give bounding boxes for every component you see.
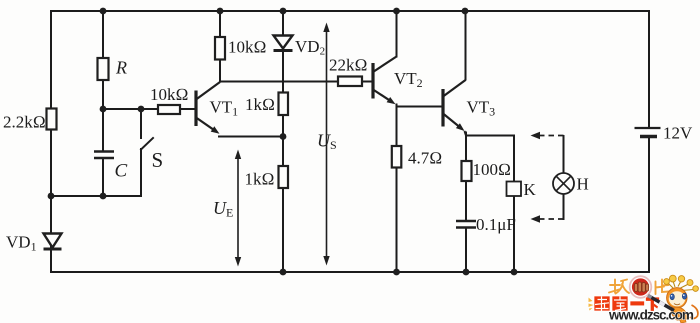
- svg-text:4.7Ω: 4.7Ω: [408, 149, 442, 168]
- svg-text:12V: 12V: [663, 124, 693, 143]
- svg-text:1kΩ: 1kΩ: [245, 170, 275, 189]
- svg-text:10kΩ: 10kΩ: [228, 38, 267, 57]
- svg-text:R: R: [115, 58, 127, 78]
- svg-text:C: C: [115, 161, 128, 182]
- svg-text:22kΩ: 22kΩ: [329, 56, 368, 75]
- svg-text:K: K: [524, 180, 537, 199]
- svg-text:0.1μF: 0.1μF: [476, 215, 516, 234]
- svg-text:2.2kΩ: 2.2kΩ: [3, 113, 46, 132]
- svg-text:10kΩ: 10kΩ: [150, 85, 189, 104]
- svg-text:S: S: [152, 148, 164, 172]
- svg-text:100Ω: 100Ω: [473, 160, 512, 179]
- svg-text:www.dzsc.com: www.dzsc.com: [608, 308, 694, 323]
- svg-text:1kΩ: 1kΩ: [245, 95, 275, 114]
- svg-text:H: H: [577, 175, 589, 194]
